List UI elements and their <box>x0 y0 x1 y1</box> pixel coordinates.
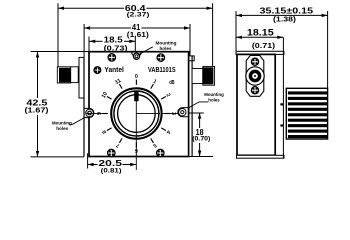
screw bottom-left <box>108 149 115 156</box>
mounting holes label right <box>204 92 224 103</box>
left connector nut <box>57 67 70 83</box>
Yantel logo <box>93 66 101 74</box>
svg-text:Mounting: Mounting <box>204 92 224 98</box>
left mounting hole <box>86 109 94 117</box>
dial crosshair horizontal <box>86 112 108 114</box>
svg-text:dB: dB <box>169 80 174 86</box>
side connector <box>246 67 264 85</box>
svg-text:(1.67): (1.67) <box>25 108 49 115</box>
screw bottom-right <box>157 149 164 156</box>
svg-text:Mounting: Mounting <box>156 41 177 47</box>
right mounting hole pocket <box>178 108 188 117</box>
svg-text:(0.81): (0.81) <box>101 167 122 174</box>
knob pointer <box>134 91 138 101</box>
flange screw bottom <box>251 87 258 94</box>
leader top <box>138 47 153 55</box>
heatsink block <box>286 88 327 139</box>
right connector nut <box>203 66 215 85</box>
right lid edge <box>191 56 193 157</box>
dim 42.5 <box>31 52 90 157</box>
leader right <box>188 102 209 108</box>
front body face <box>89 52 189 157</box>
side top band <box>236 51 284 54</box>
side body <box>237 54 275 155</box>
dim 60.4 <box>58 3 213 66</box>
svg-text:holes: holes <box>208 97 220 103</box>
dim 18.5 <box>89 37 135 52</box>
heatsink tabs <box>280 103 283 105</box>
left connector barrel <box>71 67 79 83</box>
svg-text:(2.37): (2.37) <box>127 12 150 19</box>
back plate line <box>282 37 284 158</box>
screw top-right <box>157 54 164 61</box>
left mounting hole pocket <box>84 108 94 117</box>
dial middle circle <box>114 91 159 136</box>
svg-text:(1.38): (1.38) <box>273 14 297 23</box>
flange screw top <box>251 58 258 65</box>
svg-text:holes: holes <box>56 126 68 132</box>
svg-text:(0.71): (0.71) <box>252 41 276 50</box>
dial outer circle <box>111 88 161 138</box>
svg-text:0: 0 <box>135 74 138 80</box>
svg-text:3: 3 <box>170 112 176 115</box>
svg-text:Mounting: Mounting <box>52 120 72 126</box>
svg-text:42.5: 42.5 <box>26 98 48 107</box>
mounting holes label left <box>52 120 72 131</box>
dim 41 <box>84 24 190 57</box>
mounting holes label top <box>156 41 177 52</box>
top mounting hole <box>133 53 139 59</box>
dim 18 <box>189 113 213 157</box>
heatsink fins <box>288 91 327 138</box>
svg-text:(0.70): (0.70) <box>192 136 210 143</box>
svg-text:6: 6 <box>135 147 138 153</box>
dial numbers <box>97 74 176 153</box>
right top step <box>189 56 195 61</box>
svg-text:holes: holes <box>160 46 172 52</box>
svg-text:18.15: 18.15 <box>247 27 274 37</box>
flange octagon <box>246 56 264 97</box>
svg-text:(0.73): (0.73) <box>104 45 128 52</box>
side foot <box>237 155 285 158</box>
top mounting hole pocket <box>132 52 142 57</box>
svg-text:18.5: 18.5 <box>104 35 124 44</box>
svg-text:(1.61): (1.61) <box>127 32 149 39</box>
dim 20.5 <box>88 153 137 168</box>
dim 18.15 <box>236 36 283 39</box>
knob inner crosshair <box>136 112 160 114</box>
dial centerline vertical <box>135 101 137 170</box>
leader left <box>69 117 86 124</box>
screw top-left <box>108 54 115 61</box>
left lid edge <box>83 57 85 156</box>
dim 35.15 <box>236 11 328 88</box>
svg-text:9: 9 <box>97 112 103 115</box>
left flange plate <box>79 57 84 98</box>
dial knob <box>118 95 156 133</box>
svg-text:41: 41 <box>132 23 141 32</box>
dial ticks <box>102 80 170 148</box>
right mounting hole <box>179 109 186 116</box>
svg-text:Yantel: Yantel <box>104 67 124 74</box>
svg-text:VAB1101S: VAB1101S <box>148 67 176 74</box>
right connector barrel <box>192 69 203 84</box>
